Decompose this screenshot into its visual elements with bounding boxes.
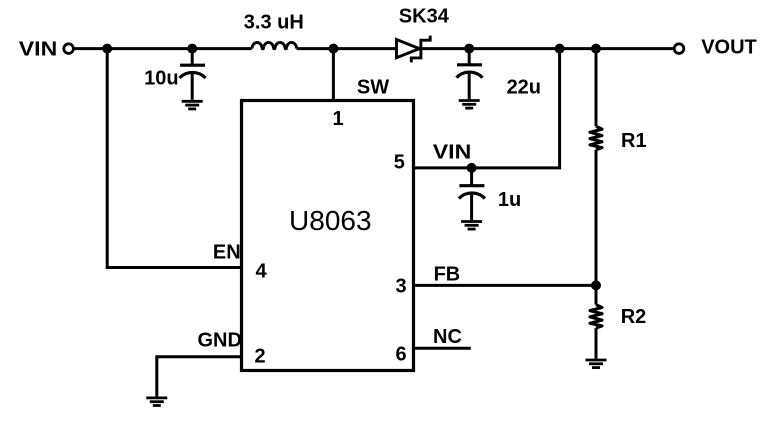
wire SW drop to pin 1	[332, 49, 335, 101]
svg-text:VIN: VIN	[433, 142, 472, 164]
svg-text:SW: SW	[357, 77, 389, 99]
svg-text:FB: FB	[434, 263, 461, 285]
inductor L1 3.3uH	[252, 42, 297, 48]
ground under C3	[461, 222, 482, 230]
svg-text:EN: EN	[213, 242, 241, 264]
svg-text:NC: NC	[433, 326, 462, 348]
capacitor C2 22u	[457, 49, 483, 99]
capacitor C3 1u	[459, 168, 485, 220]
svg-text:3: 3	[395, 275, 406, 297]
node 1u junction	[467, 163, 477, 173]
ground under C1	[182, 101, 203, 109]
svg-text:10u: 10u	[144, 67, 178, 89]
capacitor C1 10u	[180, 49, 206, 100]
node Cout junction	[464, 44, 474, 54]
svg-text:6: 6	[395, 344, 406, 366]
node VIN-pin riser junction	[555, 44, 565, 54]
wire FB pin 3	[414, 284, 597, 287]
terminal VIN	[64, 44, 74, 54]
diode D1 SK34	[397, 36, 431, 63]
svg-text:2: 2	[254, 345, 265, 367]
node FB junction	[591, 280, 601, 290]
svg-text:VIN: VIN	[19, 39, 58, 61]
wire GND pin 2 branch	[157, 357, 242, 397]
wire diode to VOUT	[421, 47, 674, 50]
svg-text:5: 5	[394, 151, 405, 173]
svg-text:R2: R2	[621, 306, 647, 328]
svg-text:R1: R1	[621, 130, 647, 152]
wire NC pin 6 stub	[414, 347, 471, 350]
svg-text:U8063: U8063	[289, 205, 372, 236]
IC U1 U8063 body	[242, 101, 414, 371]
node input junction	[102, 44, 112, 54]
node SW junction	[328, 44, 338, 54]
svg-text:GND: GND	[197, 330, 241, 352]
svg-text:VOUT: VOUT	[701, 37, 757, 59]
svg-text:1: 1	[332, 108, 343, 130]
ground under C2	[459, 101, 480, 109]
resistor R2	[590, 285, 602, 358]
wire top rail left (VIN to inductor)	[74, 47, 252, 50]
wire inductor to diode	[297, 47, 397, 50]
ground under pin 2	[146, 398, 167, 406]
svg-text:22u: 22u	[507, 76, 541, 98]
resistor R1	[590, 49, 602, 286]
svg-text:1u: 1u	[498, 189, 521, 211]
node Cin junction	[187, 44, 197, 54]
wire EN branch	[107, 49, 241, 268]
svg-text:SK34: SK34	[399, 6, 450, 28]
terminal VOUT	[674, 44, 684, 54]
node R1 junction	[591, 44, 601, 54]
svg-text:3.3 uH: 3.3 uH	[244, 12, 304, 34]
ground under R2	[586, 360, 607, 368]
wire VIN pin 5 branch	[414, 49, 560, 168]
svg-text:4: 4	[255, 261, 267, 283]
